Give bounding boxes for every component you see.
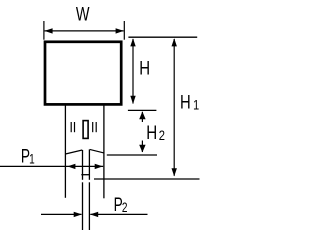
P2 right arrow line (90, 213, 147, 215)
component body (square case) (45, 42, 121, 105)
H bottom arrowhead (130, 96, 135, 104)
label W (76, 4, 90, 25)
svg-text:1: 1 (29, 151, 35, 167)
H2 top reference line (128, 109, 156, 111)
P2 left arrowhead (74, 212, 82, 217)
H1 dimension line (173, 39, 175, 176)
H top arrowhead (130, 38, 135, 46)
lead left edge upper part (82, 150, 84, 180)
svg-text:2: 2 (122, 199, 128, 215)
right tick marks inside neck (92, 122, 94, 132)
svg-text:H: H (146, 121, 157, 143)
top reference line for H and H1 (128, 36, 197, 38)
centre slot rectangle in neck (83, 121, 88, 139)
lead right edge lower part (88, 182, 90, 230)
H1 bottom arrowhead (172, 168, 177, 176)
W right arrowhead (116, 28, 124, 33)
label P1 (21, 145, 35, 167)
W dimension right extension line (123, 21, 125, 40)
svg-text:1: 1 (193, 97, 199, 113)
svg-text:H: H (180, 92, 191, 113)
P1 left arrowhead (67, 164, 75, 169)
P2 left arrow line (41, 213, 82, 215)
label H (139, 58, 150, 79)
left tick marks inside neck (70, 122, 72, 132)
W dimension line (45, 30, 124, 32)
W left arrowhead (44, 28, 52, 33)
label P2 (114, 194, 128, 216)
svg-text:2: 2 (159, 128, 165, 143)
neck right side / P1 right extension line (103, 106, 105, 199)
svg-text:H: H (139, 58, 150, 79)
H2 bottom reference line (107, 154, 157, 156)
H2 lower arrow (141, 141, 143, 153)
H2 upper arrow (141, 112, 143, 122)
P1 dimension line (0, 165, 103, 167)
neck bottom right chamfer (90, 149, 104, 153)
lead crimp crossbar (81, 174, 90, 176)
neck bottom left chamfer (65, 150, 82, 154)
P2 right arrowhead (90, 212, 98, 217)
lead left edge lower part (82, 182, 84, 230)
H1 bottom reference line (94, 178, 200, 180)
svg-text:W: W (76, 4, 90, 25)
W dimension left extension line (43, 21, 45, 40)
label H2 (146, 121, 165, 143)
H dimension line (132, 39, 134, 104)
lead right edge upper part (88, 149, 90, 179)
label H1 (180, 92, 199, 113)
neck left side / P1 left extension line (64, 106, 66, 198)
H1 top arrowhead (172, 38, 177, 46)
P1 right arrowhead (95, 164, 103, 169)
